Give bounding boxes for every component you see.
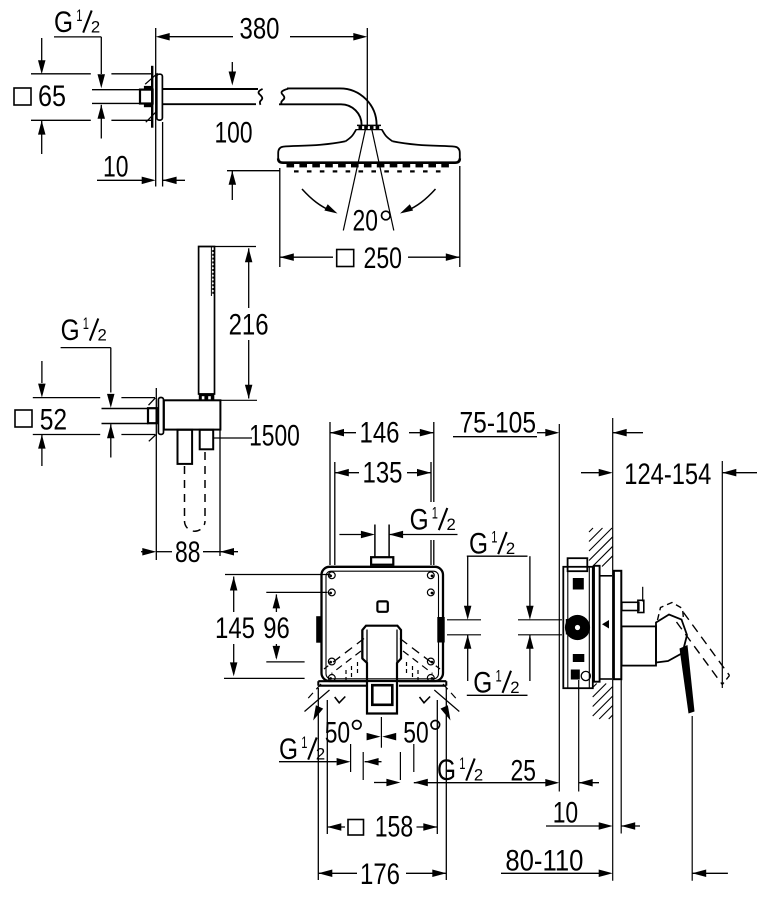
svg-text:50: 50 [403, 717, 428, 750]
svg-text:52: 52 [40, 404, 67, 437]
svg-text:146: 146 [360, 417, 400, 450]
svg-text:124-154: 124-154 [624, 458, 711, 491]
svg-text:380: 380 [240, 13, 280, 46]
svg-text:1: 1 [491, 528, 497, 547]
svg-text:1: 1 [459, 754, 465, 773]
svg-text:2: 2 [98, 326, 107, 345]
svg-text:158: 158 [375, 811, 414, 844]
svg-text:G: G [61, 314, 80, 347]
svg-text:G: G [473, 666, 492, 699]
svg-text:2: 2 [510, 678, 519, 697]
svg-text:10: 10 [553, 797, 579, 830]
svg-text:2: 2 [506, 539, 515, 558]
svg-text:G: G [410, 504, 429, 537]
svg-text:2: 2 [447, 515, 456, 534]
svg-text:1500: 1500 [249, 420, 300, 453]
svg-text:1: 1 [83, 314, 89, 333]
svg-text:96: 96 [263, 612, 290, 645]
svg-text:65: 65 [38, 80, 66, 113]
svg-text:10: 10 [103, 151, 129, 184]
svg-text:G: G [54, 6, 73, 39]
svg-text:2: 2 [91, 18, 100, 37]
svg-text:75-105: 75-105 [460, 407, 537, 440]
svg-text:50: 50 [325, 717, 350, 750]
svg-text:88: 88 [175, 536, 200, 569]
svg-text:145: 145 [215, 612, 255, 645]
svg-text:216: 216 [229, 309, 269, 342]
svg-text:2: 2 [474, 766, 483, 785]
svg-text:1: 1 [301, 733, 307, 752]
svg-text:250: 250 [364, 242, 403, 275]
svg-text:20: 20 [353, 205, 378, 238]
svg-text:1: 1 [432, 504, 438, 523]
svg-text:25: 25 [511, 755, 536, 788]
svg-text:1: 1 [76, 6, 82, 25]
svg-text:176: 176 [360, 858, 400, 891]
svg-text:2: 2 [316, 745, 325, 764]
svg-text:135: 135 [363, 457, 403, 490]
svg-text:100: 100 [215, 117, 253, 150]
svg-text:1: 1 [496, 666, 502, 685]
